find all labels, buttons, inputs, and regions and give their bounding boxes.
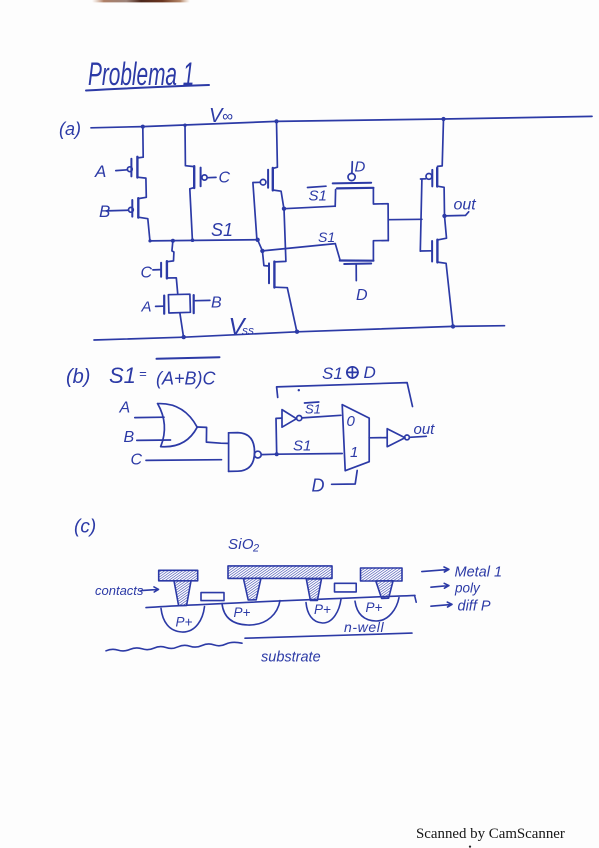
svg-text:S1: S1	[309, 188, 327, 205]
svg-text:2: 2	[252, 543, 259, 555]
svg-text:(a): (a)	[59, 119, 81, 139]
svg-text:S1: S1	[211, 220, 233, 240]
svg-text:A: A	[141, 299, 152, 316]
svg-text:(c): (c)	[74, 517, 96, 538]
svg-text:S1: S1	[109, 363, 136, 388]
svg-text:out: out	[414, 421, 436, 438]
svg-text:D: D	[355, 159, 366, 176]
svg-text:Scanned by CamScanner: Scanned by CamScanner	[416, 826, 565, 842]
svg-text:diff P: diff P	[458, 599, 491, 615]
svg-text:poly: poly	[454, 581, 481, 596]
svg-text:S1: S1	[293, 438, 311, 455]
svg-text:A: A	[94, 162, 106, 181]
svg-text:S1: S1	[322, 364, 343, 383]
svg-text:P+: P+	[366, 600, 383, 615]
svg-text:substrate: substrate	[261, 650, 321, 666]
svg-text:P+: P+	[176, 615, 193, 630]
svg-text:C: C	[131, 452, 143, 469]
svg-text:n-well: n-well	[344, 619, 384, 635]
svg-text:=: =	[139, 366, 147, 381]
svg-text:B: B	[124, 429, 135, 446]
svg-text:Metal 1: Metal 1	[455, 565, 503, 581]
svg-text:C: C	[141, 265, 153, 282]
svg-text:(b): (b)	[66, 366, 90, 388]
svg-text:P+: P+	[234, 605, 251, 620]
svg-text:(A+B)C: (A+B)C	[156, 369, 217, 389]
svg-text:S1: S1	[305, 402, 321, 417]
svg-text:contacts: contacts	[95, 583, 144, 598]
svg-text:C: C	[219, 170, 231, 187]
svg-text:P+: P+	[314, 602, 331, 617]
svg-text:1: 1	[350, 444, 358, 461]
svg-text:ss: ss	[242, 324, 254, 338]
svg-text:D: D	[356, 287, 368, 304]
svg-text:∞: ∞	[222, 108, 233, 125]
svg-text:S1: S1	[318, 229, 335, 245]
svg-text:SiO: SiO	[228, 536, 254, 553]
svg-text:D: D	[312, 476, 325, 496]
svg-text:D: D	[364, 363, 376, 382]
svg-text:A: A	[119, 400, 131, 417]
svg-text:0: 0	[347, 413, 356, 430]
svg-text:B: B	[99, 202, 110, 221]
svg-text:out: out	[454, 197, 477, 214]
svg-text:B: B	[211, 295, 222, 312]
